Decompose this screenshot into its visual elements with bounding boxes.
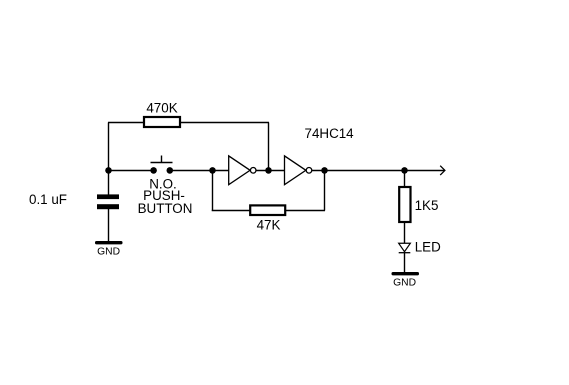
wire LED cathode to ground xyxy=(404,253,406,273)
wire lower feedback right vertical xyxy=(324,171,326,211)
wire vertical node A up to 470K feedback xyxy=(108,123,110,171)
capacitor C1 plate 1 xyxy=(97,194,119,199)
wire R3 to LED anode xyxy=(404,222,406,244)
svg-text:LED: LED xyxy=(415,240,441,255)
svg-text:47K: 47K xyxy=(257,217,281,232)
wire feedback down to node between inverters xyxy=(268,123,270,171)
wire down to R3 xyxy=(404,171,406,188)
node U1A input junction dot xyxy=(209,167,216,174)
op-amp U1B inverter triangle xyxy=(285,156,306,185)
node A junction dot xyxy=(105,167,112,174)
svg-text:1K5: 1K5 xyxy=(415,198,439,213)
svg-text:BUTTON: BUTTON xyxy=(138,201,193,216)
value label 0.1 uF xyxy=(29,192,67,207)
wire top feedback horizontal xyxy=(108,122,269,124)
resistor R2 47K body xyxy=(250,205,285,215)
wire lower feedback left vertical xyxy=(212,171,214,211)
pushbutton label BUTTON xyxy=(138,201,193,216)
svg-text:74HC14: 74HC14 xyxy=(305,126,355,141)
wire node A down to capacitor xyxy=(108,171,110,196)
value label 47K xyxy=(257,217,281,232)
wire main horizontal from C1 node to pushbutton left contact xyxy=(108,170,154,172)
op-amp U1B inversion bubble xyxy=(306,168,312,174)
pushbutton label N.O. xyxy=(149,176,177,191)
wire U1B output to arrow xyxy=(312,170,444,172)
resistor R1 470K body xyxy=(144,117,180,127)
value label 1K5 xyxy=(415,198,439,213)
capacitor C1 plate 2 xyxy=(97,204,119,209)
ground under LED bar xyxy=(392,272,420,275)
wire U1A output to U1B input xyxy=(256,170,284,172)
resistor R3 1K5 body xyxy=(399,187,410,222)
node U1B output junction dot xyxy=(321,167,328,174)
pushbutton label PUSH- xyxy=(143,188,185,203)
IC label 74HC14 xyxy=(305,126,355,141)
wire from pushbutton right contact to U1A input xyxy=(170,170,229,172)
pushbutton S1 actuator bar xyxy=(151,162,173,164)
ground under C1 label xyxy=(97,247,120,258)
svg-text:GND: GND xyxy=(97,247,120,258)
svg-text:470K: 470K xyxy=(146,100,177,115)
wire capacitor to ground xyxy=(108,209,110,242)
pushbutton S1 actuator stem xyxy=(161,156,163,164)
label LED xyxy=(415,240,441,255)
svg-text:GND: GND xyxy=(393,278,416,289)
ground under C1 bar xyxy=(95,241,123,244)
wire lower feedback bottom horizontal xyxy=(212,210,325,212)
value label 470K xyxy=(146,100,177,115)
output arrow xyxy=(440,166,445,175)
svg-text:0.1 uF: 0.1 uF xyxy=(29,192,67,207)
pushbutton S1 right contact dot xyxy=(167,167,174,174)
ground under LED label xyxy=(393,278,416,289)
op-amp U1A inverter triangle xyxy=(229,156,250,185)
node between inverters junction dot xyxy=(265,167,272,174)
op-amp U1A inversion bubble xyxy=(250,168,256,174)
diode D1 LED cathode bar xyxy=(399,252,411,254)
node LED branch junction dot xyxy=(401,167,408,174)
pushbutton S1 left contact dot xyxy=(150,167,157,174)
diode D1 LED triangle xyxy=(399,243,411,251)
